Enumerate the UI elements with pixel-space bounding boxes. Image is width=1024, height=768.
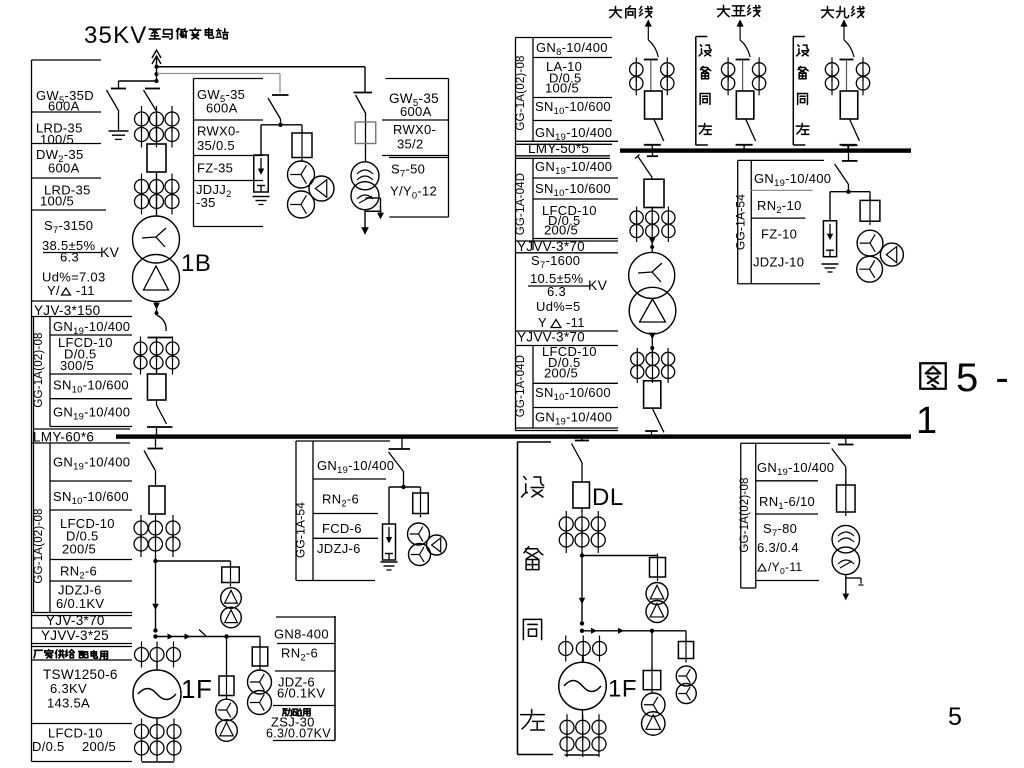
svg-text:GN19-10/400: GN19-10/400 xyxy=(535,159,612,176)
svg-text:D/0.5: D/0.5 xyxy=(32,739,65,754)
svg-text:RWX0-: RWX0- xyxy=(393,122,436,137)
svg-text:YJVV-3*70: YJVV-3*70 xyxy=(517,330,585,345)
svg-text:200/5: 200/5 xyxy=(544,366,578,381)
svg-text:GN8-10/400: GN8-10/400 xyxy=(536,40,608,57)
svg-text:Y: Y xyxy=(538,315,547,330)
svg-text:S7-3150: S7-3150 xyxy=(44,218,93,235)
svg-text:6/0.1KV: 6/0.1KV xyxy=(277,685,325,700)
svg-text:YJV-3*70: YJV-3*70 xyxy=(46,613,105,628)
svg-text:100/5: 100/5 xyxy=(40,194,74,209)
svg-text:1F: 1F xyxy=(181,674,212,704)
svg-text:S7-80: S7-80 xyxy=(763,521,797,538)
svg-text:GN19-10/400: GN19-10/400 xyxy=(53,319,130,336)
svg-text:5 -: 5 - xyxy=(956,356,1012,400)
svg-text:SN10-10/600: SN10-10/600 xyxy=(535,99,611,116)
svg-text:JDZJ-6: JDZJ-6 xyxy=(317,541,361,556)
svg-text:S7-1600: S7-1600 xyxy=(531,253,580,270)
svg-text:6.3KV: 6.3KV xyxy=(50,681,87,696)
svg-text:600A: 600A xyxy=(400,104,432,119)
svg-text:FZ-10: FZ-10 xyxy=(761,227,797,242)
svg-text:GN19-10/400: GN19-10/400 xyxy=(754,171,831,188)
svg-text:GN19-10/400: GN19-10/400 xyxy=(317,458,394,475)
svg-text:6.3: 6.3 xyxy=(547,284,566,299)
svg-text:SN10-10/600: SN10-10/600 xyxy=(53,489,129,506)
svg-text:-35: -35 xyxy=(196,195,216,210)
svg-text:Y/: Y/ xyxy=(47,283,60,298)
svg-text:RN2-6: RN2-6 xyxy=(322,492,359,509)
svg-text:200/5: 200/5 xyxy=(82,739,116,754)
svg-text:GG-1A(02)-08: GG-1A(02)-08 xyxy=(739,477,751,552)
svg-text:6/0.1KV: 6/0.1KV xyxy=(56,596,104,611)
svg-text:SN10-10/600: SN10-10/600 xyxy=(53,378,129,395)
svg-text:TSW1250-6: TSW1250-6 xyxy=(43,667,118,682)
svg-text:KV: KV xyxy=(100,244,120,260)
svg-text:GG-1A(02)-08: GG-1A(02)-08 xyxy=(33,332,45,407)
svg-text:LMY-50*5: LMY-50*5 xyxy=(528,141,589,156)
svg-text:GN19-10/400: GN19-10/400 xyxy=(535,410,612,427)
svg-text:143.5A: 143.5A xyxy=(47,696,90,711)
svg-text:600A: 600A xyxy=(206,101,238,116)
svg-text:RN2-6: RN2-6 xyxy=(60,564,97,581)
svg-text:35/2: 35/2 xyxy=(397,137,424,152)
svg-text:300/5: 300/5 xyxy=(60,358,94,373)
svg-text:6.3/0.07KV: 6.3/0.07KV xyxy=(266,727,331,741)
svg-text:1: 1 xyxy=(916,400,937,442)
svg-text:-11: -11 xyxy=(566,315,585,330)
svg-text:35/0.5: 35/0.5 xyxy=(197,138,235,153)
svg-text:-11: -11 xyxy=(76,283,95,298)
svg-text:6.3: 6.3 xyxy=(60,250,79,265)
svg-text:FCD-6: FCD-6 xyxy=(322,521,362,536)
svg-text:600A: 600A xyxy=(48,161,80,176)
svg-text:GN19-10/400: GN19-10/400 xyxy=(53,455,130,472)
svg-text:/Y0-11: /Y0-11 xyxy=(768,560,802,576)
svg-text:GG-1A-54: GG-1A-54 xyxy=(734,194,748,250)
svg-text:35KV: 35KV xyxy=(84,22,148,49)
svg-text:YJVV-3*25: YJVV-3*25 xyxy=(41,628,109,643)
svg-text:GG-1A-54: GG-1A-54 xyxy=(294,502,308,558)
svg-text:YJVV-3*70: YJVV-3*70 xyxy=(517,239,585,254)
svg-text:GG-1A(02)-08: GG-1A(02)-08 xyxy=(33,508,45,583)
svg-text:GN19-10/400: GN19-10/400 xyxy=(53,405,130,422)
svg-text:GN19-10/400: GN19-10/400 xyxy=(535,125,612,142)
svg-text:100/5: 100/5 xyxy=(40,132,74,147)
svg-text:Ud%=5: Ud%=5 xyxy=(536,299,581,314)
svg-text:6.3/0.4: 6.3/0.4 xyxy=(757,540,799,555)
svg-text:200/5: 200/5 xyxy=(62,542,96,557)
svg-text:600A: 600A xyxy=(48,99,80,114)
svg-text:KV: KV xyxy=(588,277,608,293)
svg-text:SN10-10/600: SN10-10/600 xyxy=(535,385,611,402)
svg-text:GG-1A-04D: GG-1A-04D xyxy=(515,173,527,236)
svg-text:YJV-3*150: YJV-3*150 xyxy=(34,303,101,318)
svg-text:GG-1A(02)-08: GG-1A(02)-08 xyxy=(515,55,527,130)
svg-text:GN8-400: GN8-400 xyxy=(274,627,329,642)
svg-text:1F: 1F xyxy=(608,676,637,703)
svg-text:RN2-6: RN2-6 xyxy=(281,646,318,663)
svg-text:DL: DL xyxy=(592,484,624,511)
svg-text:GG-1A-04D: GG-1A-04D xyxy=(515,355,527,418)
svg-text:JDZJ-10: JDZJ-10 xyxy=(753,255,804,270)
svg-text:GN19-10/400: GN19-10/400 xyxy=(757,460,834,477)
svg-text:RWX0-: RWX0- xyxy=(197,124,240,139)
svg-text:100/5: 100/5 xyxy=(545,81,579,96)
svg-text:FZ-35: FZ-35 xyxy=(197,161,233,176)
svg-text:RN1-6/10: RN1-6/10 xyxy=(759,494,815,511)
svg-text:200/5: 200/5 xyxy=(544,223,578,238)
svg-text:5: 5 xyxy=(948,703,962,731)
svg-text:SN10-10/600: SN10-10/600 xyxy=(535,181,611,198)
svg-text:S7-50: S7-50 xyxy=(391,162,425,179)
svg-text:1B: 1B xyxy=(181,250,211,277)
svg-text:LMY-60*6: LMY-60*6 xyxy=(33,430,94,445)
